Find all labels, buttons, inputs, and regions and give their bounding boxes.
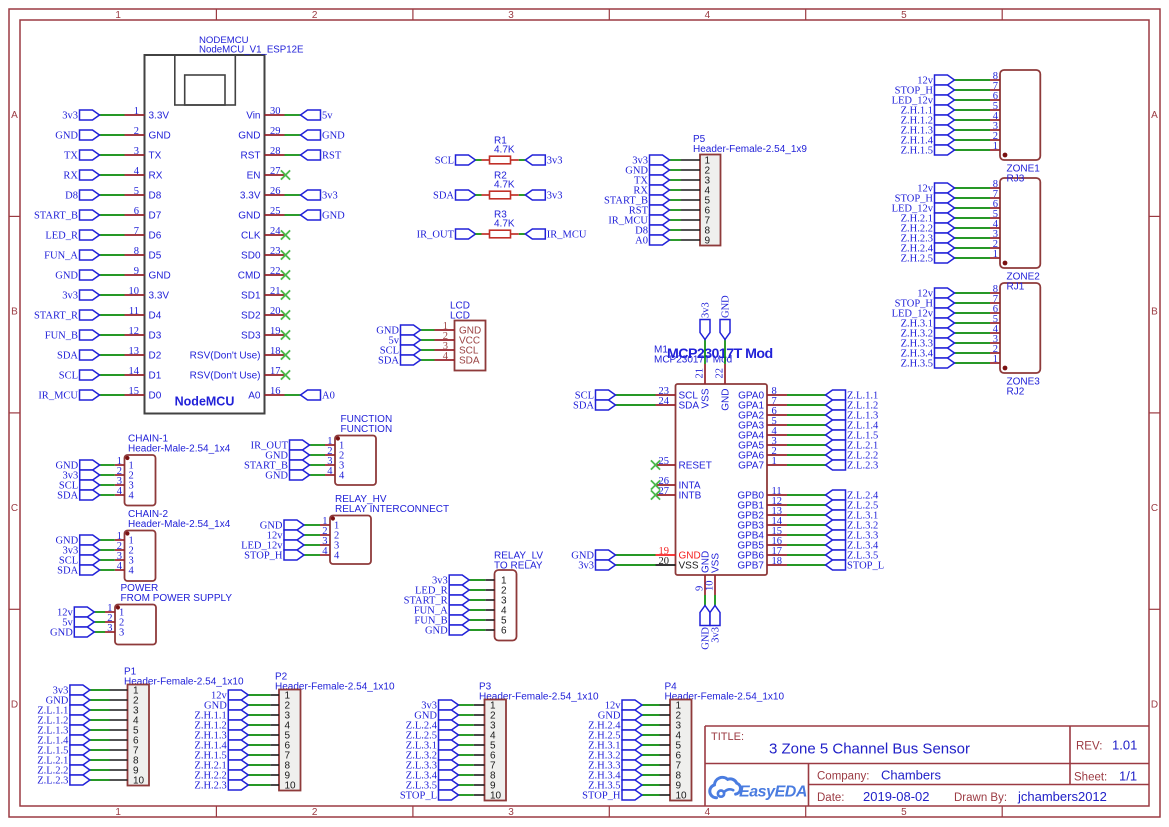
wire net Z.H.2.5 to ZONE2 pin 1 [955,257,991,259]
wire M1 pin 7 to net Z.L.1.2 [787,404,826,406]
wire net SCL to M1 pin 23 [616,394,656,396]
NodeMCU pin 11 D4 [125,306,162,322]
svg-text:SDA: SDA [57,351,78,362]
wire R3.2 to IR_MCU [519,233,526,235]
svg-text:RST: RST [322,151,342,162]
net flag Z.H.1.1 [901,105,955,117]
svg-text:4: 4 [322,546,328,557]
wire net Z.H.3.5 to P4 pin 9 [642,784,660,786]
wire net GND to P2 pin 2 [248,704,270,706]
svg-text:GND: GND [425,626,448,637]
net flag 3v3 (vertical) [700,302,712,339]
NodeMCU pin 29 GND [238,126,284,142]
M1 pin 18 GPB7 [737,556,787,572]
svg-text:D4: D4 [149,311,162,322]
svg-text:Header-Male-2.54_1x4: Header-Male-2.54_1x4 [128,519,231,530]
wire net STOP_L to P3 pin 10 [459,794,474,796]
svg-text:TX: TX [64,151,78,162]
M1 pin 19 GND [656,546,701,562]
P1 pin 5 [110,726,140,737]
wire net 12v to POWER pin 1 [94,611,105,613]
NodeMCU pin 27 EN [247,166,285,182]
wire net STOP_H to ZONE3 pin 7 [955,302,991,304]
wire net RX to P5 pin 4 [670,189,682,191]
no-connect X on M1 pin 26 [651,480,660,489]
svg-text:A: A [11,110,18,121]
svg-text:GND: GND [238,131,260,142]
net flag Z.L.3.4 [406,770,459,782]
net flag GND [301,130,346,142]
net flag Z.H.3.5 [588,780,642,792]
net flag STOP_L [826,560,885,572]
net flag Z.H.1.3 [901,125,955,137]
RELAY_LV pin 6 [485,626,507,637]
svg-text:D0: D0 [149,391,162,402]
ZONE2 pin 7 [990,189,1000,200]
net flag GND [571,550,615,562]
wire net FUN_B to RELAY_LV pin 5 [469,619,485,621]
svg-text:2019-08-02: 2019-08-02 [863,789,930,804]
no-connect X on pin 24 [281,230,290,239]
net flag Z.H.2.5 [901,253,955,265]
svg-text:5v: 5v [322,111,333,122]
svg-text:5: 5 [901,10,907,21]
connector POWER body [115,605,156,645]
connector RELAY_HV body [330,516,371,565]
ZONE2 pin 8 [990,179,1000,190]
svg-text:26: 26 [270,186,281,197]
svg-text:GND: GND [149,271,171,282]
P1 pin 7 [110,746,140,757]
net flag D8 [635,225,669,237]
NodeMCU pin 25 GND [238,206,284,222]
svg-text:SDA: SDA [573,401,594,412]
P3 pin 10 [474,791,502,802]
net flag STOP_L [400,790,459,802]
net flag Z.H.2.2 [194,770,248,782]
wire net D8 to P5 pin 8 [670,229,682,231]
P4 pin 3 [660,721,682,732]
connector ZONE1 RJ3 body [1000,70,1040,160]
net flag A0 [301,390,335,402]
net flag Z.L.2.5 [826,500,879,512]
frame row ticks [9,216,1160,609]
svg-text:1: 1 [993,249,998,260]
P1 pin 3 [110,706,140,717]
POWER pin 2 [105,613,124,629]
wire net GND to M1 pin 19 [616,554,656,556]
svg-text:Date:: Date: [817,792,845,804]
svg-text:22: 22 [270,266,281,277]
net flag STOP_H [895,85,955,97]
M1 pin 24 SDA [656,396,700,412]
ZONE1 pin 4 [990,111,1000,122]
net flag Z.L.1.1 [37,705,90,717]
net flag Z.H.1.2 [194,720,248,732]
wire net LED_R to RELAY_LV pin 2 [469,589,485,591]
net flag 3v3 [432,575,469,587]
net flag Z.L.3.1 [406,740,459,752]
wire net Z.L.1.2 to P1 pin 4 [90,719,110,721]
svg-text:21: 21 [270,286,281,297]
wire net 3v3 to P3 pin 1 [459,704,474,706]
svg-text:Chambers: Chambers [881,768,941,783]
M1 pin 17 GPB6 [737,546,787,562]
P1 pin 10 [110,776,145,787]
component U1 NodeMCU body [145,55,265,414]
R3 pin 2 lead [511,233,519,235]
wire NodeMCU pin 16 to net A0 [285,394,301,396]
NodeMCU pin 19 SD3 [241,326,284,342]
net flag LED_12v [892,95,955,107]
net flag Z.L.3.4 [826,540,879,552]
net flag IR_MCU [38,390,99,402]
ZONE1 pin 6 [990,91,1000,102]
R1 pin 1 lead [482,159,490,161]
wire net IR_MCU to NodeMCU pin 15 [100,394,125,396]
net flag IR_MCU [608,215,669,227]
wire net GND to RELAY_HV pin 1 [304,524,320,526]
svg-text:VSS: VSS [701,388,712,408]
NodeMCU pin 15 D0 [125,386,162,402]
net flag 3v3 [578,560,615,572]
P3 pin 1 [474,701,496,712]
svg-text:Z.H.3.5: Z.H.3.5 [901,359,933,370]
P3 pin 8 [474,771,496,782]
svg-text:SDA: SDA [57,566,78,577]
net flag Z.L.3.1 [826,510,879,522]
svg-text:CLK: CLK [241,231,261,242]
NodeMCU pin 17 RSV(Don't Use) [190,366,285,382]
net flag Z.L.1.2 [37,715,90,727]
net flag Z.H.3.1 [588,740,642,752]
wire net 12v to RELAY_HV pin 2 [304,534,320,536]
svg-text:18: 18 [270,346,281,357]
wire net SDA to CHAIN-2 pin 4 [100,569,115,571]
P2 pin 10 [270,781,296,792]
POWER pin 1 dot [116,605,120,609]
svg-text:1: 1 [115,807,121,818]
net flag SDA [573,400,616,412]
ZONE2 pin 5 [990,209,1000,220]
net flag STOP_H [244,550,304,562]
M1 pin 12 GPB1 [737,496,787,512]
svg-text:SDA: SDA [433,191,454,202]
P2 pin 1 [270,691,290,702]
svg-text:GND: GND [721,389,732,411]
svg-text:RELAY INTERCONNECT: RELAY INTERCONNECT [335,504,449,515]
wire NodeMCU pin 28 to net RST [285,154,301,156]
svg-text:6: 6 [134,206,139,217]
svg-text:8: 8 [134,246,139,257]
IC M1 MCP23017T Mod body [676,384,768,575]
wire net TX to NodeMCU pin 3 [100,154,125,156]
wire net 3v3 to CHAIN-1 pin 2 [100,474,115,476]
wire net Z.H.2.1 to P2 pin 8 [248,764,270,766]
svg-text:3v3: 3v3 [62,111,78,122]
M1 pin 27 INTB [656,486,702,502]
svg-text:SCL: SCL [435,156,454,167]
svg-text:TX: TX [149,151,162,162]
R3 pin 1 lead [482,233,490,235]
wire M1 pin 14 to net Z.L.3.2 [787,524,826,526]
wire net 12v to ZONE2 pin 8 [955,187,991,189]
net flag Z.L.3.3 [406,760,459,772]
svg-text:7: 7 [134,226,139,237]
svg-text:FUN_B: FUN_B [45,331,78,342]
wire net GND to NodeMCU pin 2 [100,134,125,136]
P4 pin 6 [660,751,682,762]
NodeMCU pin 12 D3 [125,326,162,342]
svg-text:Vin: Vin [246,111,260,122]
resistor R2 body [490,191,511,199]
svg-text:IR_MCU: IR_MCU [38,391,78,402]
svg-text:D: D [11,699,18,710]
wire net STOP_H to P4 pin 10 [642,794,660,796]
svg-text:STOP_L: STOP_L [400,791,437,802]
svg-text:jchambers2012: jchambers2012 [1017,789,1107,804]
net flag LED_12v [892,203,955,215]
net flag Z.H.2.1 [901,213,955,225]
wire net 3v3 to CHAIN-2 pin 2 [100,549,115,551]
svg-text:Z.L.2.3: Z.L.2.3 [37,776,68,787]
wire net IR_OUT to FUNCTION pin 1 [310,444,326,446]
wire net START_B to FUNCTION pin 3 [310,464,326,466]
wire net SCL to NodeMCU pin 14 [100,374,125,376]
svg-text:13: 13 [129,346,140,357]
connector RELAY_LV body [495,570,517,641]
wire net LED_R to NodeMCU pin 7 [100,234,125,236]
P5 pin 9 [681,236,711,247]
svg-text:GND: GND [55,131,78,142]
wire M1 pin 13 to net Z.L.3.1 [787,514,826,516]
net flag Z.H.1.5 [194,750,248,762]
wire net 5v to POWER pin 2 [94,621,105,623]
frame column ticks [216,9,1002,817]
svg-text:20: 20 [659,556,670,567]
wire net Z.L.1.1 to P1 pin 3 [90,709,110,711]
net flag GND [46,695,90,707]
net flag SDA [378,355,421,367]
NodeMCU pin 5 D8 [125,186,162,202]
svg-text:STOP_H: STOP_H [582,791,621,802]
frame column numbers [115,10,907,818]
net flag Z.H.2.4 [901,243,955,255]
svg-text:2: 2 [312,807,318,818]
wire M1 pin 4 to net Z.L.1.5 [787,434,826,436]
svg-text:D8: D8 [149,191,162,202]
svg-text:6: 6 [501,626,507,637]
net flag Z.L.3.5 [826,550,879,562]
svg-text:SDA: SDA [679,401,700,412]
net flag IR_MCU [525,229,587,241]
svg-text:4.7K: 4.7K [494,219,515,230]
svg-text:VSS: VSS [679,561,699,572]
net flag FUN_B [414,615,469,627]
net flag 3v3 (vertical) [710,606,722,643]
wire net Z.L.2.2 to P1 pin 9 [90,769,110,771]
wire M1 pin 18 to net STOP_L [787,564,826,566]
net flag GND [376,325,420,337]
net flag START_B [244,460,310,472]
wire net Z.H.1.2 to P2 pin 4 [248,724,270,726]
P5 pin 5 [681,196,711,207]
P5 pin 4 [681,186,711,197]
no-connect X on pin 17 [281,370,290,379]
net flag SCL [59,370,100,382]
svg-text:4.7K: 4.7K [494,145,515,156]
net flag Z.L.1.3 [826,410,879,422]
svg-text:10: 10 [676,791,688,802]
svg-text:MCP23017T Mod: MCP23017T Mod [667,346,773,362]
ZONE1 pin 7 [990,81,1000,92]
wire net START_B to NodeMCU pin 6 [100,214,125,216]
wire net 3v3 to M1 pin 10 [714,595,716,606]
ZONE3 pin 1 dot [1003,366,1008,371]
no-connect X on pin 22 [281,270,290,279]
svg-text:Drawn By:: Drawn By: [954,792,1007,804]
net flag Z.H.3.2 [588,750,642,762]
net flag Z.H.2.4 [588,720,642,732]
ZONE2 pin 1 [990,249,1000,260]
wire net Z.H.3.2 to ZONE3 pin 4 [955,332,991,334]
ZONE3 pin 7 [990,294,1000,305]
wire net Z.H.1.1 to P2 pin 3 [248,714,270,716]
svg-text:1.01: 1.01 [1112,738,1137,753]
svg-text:D5: D5 [149,251,162,262]
svg-text:30: 30 [270,106,281,117]
net flag Z.H.3.1 [901,318,955,330]
svg-text:4: 4 [705,807,711,818]
wire net 3v3 to NodeMCU pin 10 [100,294,125,296]
P3 pin 9 [474,781,496,792]
net flag LED_12v [892,308,955,320]
svg-text:A0: A0 [322,391,335,402]
svg-text:RST: RST [241,151,261,162]
wire NodeMCU pin 29 to net GND [285,134,301,136]
svg-text:RJ3: RJ3 [1007,174,1025,185]
wire net Z.H.2.5 to P4 pin 4 [642,734,660,736]
net flag IR_OUT [417,229,476,241]
P5 pin 1 [681,156,711,167]
net flag 12v [917,75,954,87]
svg-text:D6: D6 [149,231,162,242]
svg-text:D1: D1 [149,371,162,382]
net flag Z.L.2.4 [826,490,879,502]
wire net Z.H.2.1 to ZONE2 pin 5 [955,217,991,219]
svg-text:10: 10 [133,776,145,787]
M1 pin 16 GPB5 [737,536,787,552]
NodeMCU pin 16 A0 [248,386,284,402]
net flag GND [55,270,99,282]
net flag 3v3 [525,155,562,167]
net flag SDA [433,190,476,202]
M1 pin 3 GPA5 [738,436,787,452]
wire net LED_12v to ZONE2 pin 6 [955,207,991,209]
net flag Z.H.1.1 [194,710,248,722]
net flag Z.L.1.5 [826,430,879,442]
net flag 12v [57,607,94,619]
FUNCTION pin 4 [325,466,345,482]
ZONE1 pin 5 [990,101,1000,112]
NodeMCU pin 10 3.3V [125,286,170,302]
wire M1 pin 12 to net Z.L.2.5 [787,504,826,506]
CHAIN-2 pin 4 [115,561,135,577]
wire net Z.H.2.3 to ZONE2 pin 3 [955,237,991,239]
LCD pin 1 GND [435,321,482,337]
P5 pin 6 [681,206,711,217]
NodeMCU pin 9 GND [125,266,171,282]
CHAIN-1 pin 1 [115,456,134,472]
svg-text:3v3: 3v3 [62,291,78,302]
net flag 5v [301,110,334,122]
wire net Z.L.1.3 to P1 pin 5 [90,729,110,731]
wire net SCL to CHAIN-2 pin 3 [100,559,115,561]
wire net RX to NodeMCU pin 4 [100,174,125,176]
net flag GND [625,165,669,177]
wire net SDA to NodeMCU pin 13 [100,354,125,356]
svg-text:21: 21 [694,368,705,379]
svg-text:GPA7: GPA7 [738,461,764,472]
net flag SDA [57,350,100,362]
svg-text:SD2: SD2 [241,311,261,322]
RELAY_LV pin 3 [485,596,507,607]
title block outline [705,726,1149,806]
svg-text:Header-Female-2.54_1x9: Header-Female-2.54_1x9 [693,144,807,155]
M1 pin 26 INTA [656,476,701,492]
wire net Z.H.1.4 to P2 pin 6 [248,744,270,746]
FUNCTION pin 1 [325,436,344,452]
wire M1 pin 1 to net Z.L.2.3 [787,464,826,466]
wire net Z.L.2.5 to P3 pin 4 [459,734,474,736]
NodeMCU pin 26 3.3V [240,186,285,202]
wire net START_B to P5 pin 5 [670,199,682,201]
net flag Z.L.2.1 [37,755,90,767]
M1 pin 15 GPB4 [737,526,787,542]
svg-text:4: 4 [339,471,345,482]
svg-text:C: C [11,503,18,514]
NodeMCU pin 20 SD2 [241,306,284,322]
svg-text:9: 9 [134,266,139,277]
svg-text:4: 4 [705,10,711,21]
net flag START_R [34,310,100,322]
svg-text:SD3: SD3 [241,331,261,342]
FUNCTION pin 3 [325,456,344,472]
net flag GND [55,130,99,142]
svg-text:3v3: 3v3 [547,191,563,202]
net flag Z.L.3.2 [406,750,459,762]
net flag FUN_B [45,330,100,342]
wire net 3v3 to M1 pin 21 [704,340,706,365]
wire NodeMCU pin 25 to net GND [285,214,301,216]
net flag RST [301,150,342,162]
svg-text:15: 15 [129,386,140,397]
CHAIN-2 pin 2 [115,541,134,557]
wire net SDA to CHAIN-1 pin 4 [100,494,115,496]
net flag 3v3 [632,155,669,167]
svg-text:10: 10 [129,286,140,297]
NodeMCU pin 1 3.3V [125,106,170,122]
wire net START_R to RELAY_LV pin 3 [469,599,485,601]
P2 pin 2 [270,701,290,712]
wire net Z.H.3.1 to ZONE3 pin 5 [955,322,991,324]
svg-text:3v3: 3v3 [701,302,712,318]
net flag Z.H.2.5 [588,730,642,742]
wire net TX to P5 pin 3 [670,179,682,181]
svg-text:3: 3 [134,146,139,157]
P4 pin 4 [660,731,682,742]
svg-text:27: 27 [270,166,281,177]
